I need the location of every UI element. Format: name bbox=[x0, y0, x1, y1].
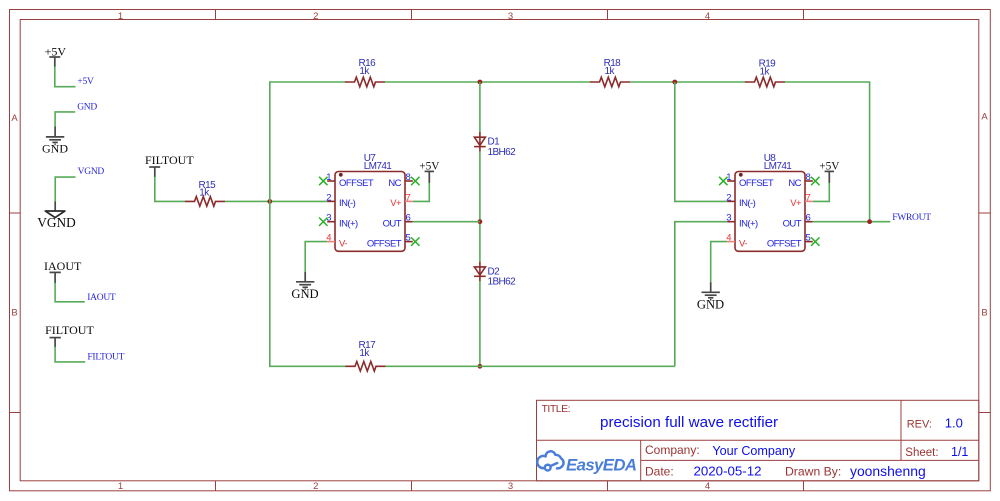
power +5V at U7 bar bbox=[425, 171, 434, 183]
svg-text:2020-05-12: 2020-05-12 bbox=[694, 464, 762, 479]
svg-text:VGND: VGND bbox=[78, 167, 105, 177]
svg-text:5: 5 bbox=[406, 233, 411, 244]
wire FILTOUT to R15 bbox=[155, 177, 185, 202]
svg-text:IAOUT: IAOUT bbox=[44, 259, 82, 273]
svg-text:OUT: OUT bbox=[783, 219, 802, 230]
svg-text:1/1: 1/1 bbox=[951, 445, 968, 459]
op-amp U7 body bbox=[335, 172, 405, 252]
op-amp U8 body bbox=[735, 172, 805, 252]
svg-text:2: 2 bbox=[326, 192, 331, 203]
U8 pin 1 no-connect X bbox=[719, 177, 727, 185]
svg-text:Date:: Date: bbox=[645, 465, 674, 479]
junction bottom at D2 bbox=[478, 364, 483, 369]
svg-text:1k: 1k bbox=[359, 66, 370, 77]
svg-text:3: 3 bbox=[726, 213, 731, 224]
U8 pin 2 stub bbox=[727, 200, 735, 202]
wire R17 to mid vertical bbox=[386, 365, 675, 367]
U7 pin 5 no-connect X bbox=[411, 237, 419, 245]
diode D1 bbox=[474, 132, 486, 152]
resistor R19 bbox=[745, 77, 785, 87]
svg-text:IAOUT: IAOUT bbox=[87, 293, 116, 303]
netflag FILTOUT left bar bbox=[50, 338, 61, 348]
svg-text:V+: V+ bbox=[390, 198, 402, 209]
wire R16 to R18 bbox=[385, 81, 590, 83]
svg-text:A: A bbox=[11, 113, 18, 124]
U8 pin 6 stub bbox=[805, 221, 813, 223]
junction pin2 net bbox=[267, 199, 272, 204]
resistor R18 bbox=[590, 77, 630, 87]
wire bottom run left of R17 bbox=[269, 365, 346, 367]
svg-text:OFFSET: OFFSET bbox=[367, 238, 402, 249]
svg-text:OFFSET: OFFSET bbox=[339, 178, 374, 189]
wire U7 out bbox=[413, 221, 480, 223]
svg-text:LM741: LM741 bbox=[364, 161, 393, 172]
svg-text:OFFSET: OFFSET bbox=[767, 238, 802, 249]
U8 pin 7 stub bbox=[805, 200, 813, 202]
U7 pin 6 stub bbox=[405, 221, 413, 223]
resistor R16 bbox=[345, 77, 385, 87]
svg-text:8: 8 bbox=[406, 172, 411, 183]
ground symbol top-left stem bbox=[54, 127, 56, 137]
U7 pin 1 no-connect X bbox=[319, 177, 327, 185]
border column tick top 4 bbox=[803, 10, 805, 20]
border column tick top 1 bbox=[215, 10, 217, 20]
svg-text:1: 1 bbox=[118, 481, 123, 492]
U8 pin 8 no-connect X bbox=[811, 177, 819, 185]
U7 pin 3 no-connect X bbox=[319, 218, 327, 226]
svg-text:1BH62: 1BH62 bbox=[488, 147, 517, 158]
border row tick left A/B bbox=[10, 212, 21, 214]
wire top run left of R16 bbox=[269, 81, 345, 83]
title block outline bbox=[537, 400, 979, 481]
svg-text:7: 7 bbox=[406, 192, 411, 203]
svg-text:6: 6 bbox=[406, 213, 411, 224]
U7 pin 2 stub bbox=[327, 200, 335, 202]
wire U7 pin4 to ground bbox=[305, 242, 327, 273]
svg-text:1.0: 1.0 bbox=[945, 415, 963, 430]
border column tick bottom 2 bbox=[411, 481, 413, 491]
svg-text:IN(-): IN(-) bbox=[339, 198, 356, 209]
svg-text:GND: GND bbox=[697, 297, 724, 311]
title block line under title row bbox=[537, 439, 979, 441]
border column tick top 3 bbox=[607, 10, 609, 20]
U8 pin 1 stub bbox=[727, 180, 735, 182]
wire U8 out to FWROUT bbox=[813, 221, 891, 223]
svg-text:GND: GND bbox=[77, 103, 97, 113]
ground symbol U7 stem bbox=[304, 272, 306, 282]
svg-text:NC: NC bbox=[388, 178, 401, 189]
U7 pin 8 stub bbox=[405, 180, 413, 182]
border column tick bottom 1 bbox=[215, 481, 217, 491]
svg-text:3: 3 bbox=[508, 481, 513, 492]
svg-text:6: 6 bbox=[806, 213, 811, 224]
border column tick top 2 bbox=[411, 10, 413, 20]
svg-text:1: 1 bbox=[118, 11, 123, 22]
ground symbol U7 bars bbox=[296, 282, 314, 290]
svg-text:GND: GND bbox=[291, 287, 318, 301]
svg-text:V-: V- bbox=[339, 238, 347, 249]
netflag IAOUT bar bbox=[50, 272, 61, 283]
U7 pin 1 stub bbox=[327, 180, 335, 182]
ground symbol top-left bars bbox=[46, 137, 64, 145]
junction out U7 bbox=[478, 219, 483, 224]
svg-text:B: B bbox=[981, 308, 987, 319]
power flag +5V top-left bar bbox=[49, 57, 60, 67]
junction top at D1 bbox=[478, 80, 483, 85]
junction top at U8 in- bbox=[672, 80, 677, 85]
svg-text:FILTOUT: FILTOUT bbox=[45, 323, 94, 337]
ground symbol U8 bars bbox=[702, 292, 720, 300]
svg-text:LM741: LM741 bbox=[764, 161, 793, 172]
border row tick right B/C bbox=[979, 412, 991, 414]
svg-text:FILTOUT: FILTOUT bbox=[87, 352, 124, 362]
wire +5V to U7 pin7 bbox=[413, 183, 430, 202]
svg-text:NC: NC bbox=[788, 178, 801, 189]
U8 pin 4 stub bbox=[727, 241, 735, 243]
svg-text:2: 2 bbox=[313, 481, 318, 492]
svg-text:EasyEDA: EasyEDA bbox=[566, 455, 636, 474]
svg-text:+5V: +5V bbox=[77, 77, 94, 87]
svg-text:IN(+): IN(+) bbox=[739, 219, 758, 230]
resistor R17 bbox=[345, 362, 385, 372]
svg-text:TITLE:: TITLE: bbox=[542, 403, 571, 415]
U7 pin 7 stub bbox=[405, 200, 413, 202]
svg-text:REV:: REV: bbox=[907, 418, 932, 430]
svg-text:8: 8 bbox=[806, 172, 811, 183]
title block line under company row bbox=[641, 459, 979, 461]
border column tick bottom 3 bbox=[607, 481, 609, 491]
wire D1 to D2 bbox=[479, 151, 481, 262]
svg-text:3: 3 bbox=[508, 11, 513, 22]
vgnd symbol stem bbox=[54, 202, 56, 216]
svg-text:OUT: OUT bbox=[383, 219, 402, 230]
svg-text:1k: 1k bbox=[605, 66, 616, 77]
svg-text:V-: V- bbox=[739, 238, 747, 249]
wire mid vertical to U8 in+ bbox=[675, 222, 727, 367]
svg-text:5: 5 bbox=[806, 233, 811, 244]
svg-text:GND: GND bbox=[42, 142, 68, 156]
op-amp U8 pin1 mark bbox=[739, 173, 743, 177]
svg-text:precision full wave rectifier: precision full wave rectifier bbox=[600, 414, 778, 431]
U7 pin 3 stub bbox=[327, 221, 335, 223]
wire to VGND symbol bbox=[55, 177, 75, 202]
op-amp U7 pin1 mark bbox=[339, 173, 343, 177]
U7 pin 8 no-connect X bbox=[411, 177, 419, 185]
wire to GND symbol bbox=[55, 112, 75, 127]
netport FILTOUT bar bbox=[149, 167, 160, 177]
svg-text:2: 2 bbox=[313, 11, 318, 22]
wire R19 to right corner bbox=[785, 82, 870, 222]
svg-text:FWROUT: FWROUT bbox=[892, 213, 931, 223]
svg-text:OFFSET: OFFSET bbox=[739, 178, 774, 189]
U7 pin 5 stub bbox=[405, 241, 413, 243]
svg-text:FILTOUT: FILTOUT bbox=[145, 153, 194, 167]
U8 pin 3 stub bbox=[727, 221, 735, 223]
U7 pin 4 stub bbox=[327, 241, 335, 243]
wire left vertical main bbox=[269, 82, 271, 366]
svg-text:Your Company: Your Company bbox=[712, 444, 796, 458]
svg-text:2: 2 bbox=[726, 192, 731, 203]
wire from FILTOUT flag bbox=[55, 347, 85, 362]
border row tick right A/B bbox=[979, 212, 991, 214]
wire mid vertical to U8 in- bbox=[675, 82, 727, 201]
svg-text:yoonshenng: yoonshenng bbox=[850, 463, 926, 479]
wire R15 to U7 pin2 bbox=[225, 200, 327, 202]
border column tick bottom 4 bbox=[803, 481, 805, 491]
wire +5V to U8 pin7 bbox=[813, 183, 830, 202]
svg-text:V+: V+ bbox=[790, 198, 802, 209]
svg-text:VGND: VGND bbox=[37, 215, 76, 230]
svg-text:B: B bbox=[11, 308, 17, 319]
svg-text:4: 4 bbox=[705, 481, 710, 492]
svg-text:IN(-): IN(-) bbox=[739, 198, 756, 209]
U8 pin 8 stub bbox=[805, 180, 813, 182]
vgnd symbol triangle bbox=[45, 211, 65, 218]
junction U8 out bbox=[867, 219, 872, 224]
svg-text:1k: 1k bbox=[359, 348, 370, 359]
svg-text:IN(+): IN(+) bbox=[339, 219, 358, 230]
svg-text:1k: 1k bbox=[760, 66, 771, 77]
svg-text:1k: 1k bbox=[199, 188, 210, 199]
title block logo cell divider bbox=[640, 440, 642, 481]
wire R18 to R19 bbox=[630, 81, 745, 83]
ground symbol U8 stem bbox=[710, 282, 712, 292]
wire from +5V flag bbox=[55, 67, 76, 87]
svg-text:Company:: Company: bbox=[645, 443, 700, 457]
diode D2 bbox=[474, 262, 486, 282]
svg-text:1BH62: 1BH62 bbox=[488, 277, 517, 288]
wire from IAOUT flag bbox=[55, 283, 85, 302]
svg-text:Sheet:: Sheet: bbox=[905, 447, 938, 459]
svg-text:4: 4 bbox=[705, 11, 710, 22]
power +5V at U8 bar bbox=[825, 171, 834, 183]
U8 pin 5 no-connect X bbox=[811, 237, 819, 245]
border row tick left B/C bbox=[10, 412, 21, 414]
wire D1 branch upper bbox=[479, 82, 481, 133]
EasyEDA logo cloud bbox=[537, 451, 563, 470]
wire U8 pin4 to ground bbox=[711, 242, 728, 283]
svg-text:A: A bbox=[981, 112, 988, 123]
resistor R15 bbox=[185, 197, 225, 207]
svg-text:7: 7 bbox=[806, 192, 811, 203]
title block rev cell divider bbox=[900, 400, 902, 460]
wire D2 to bottom bbox=[479, 281, 481, 366]
U8 pin 5 stub bbox=[805, 241, 813, 243]
svg-text:Drawn By:: Drawn By: bbox=[785, 465, 841, 479]
